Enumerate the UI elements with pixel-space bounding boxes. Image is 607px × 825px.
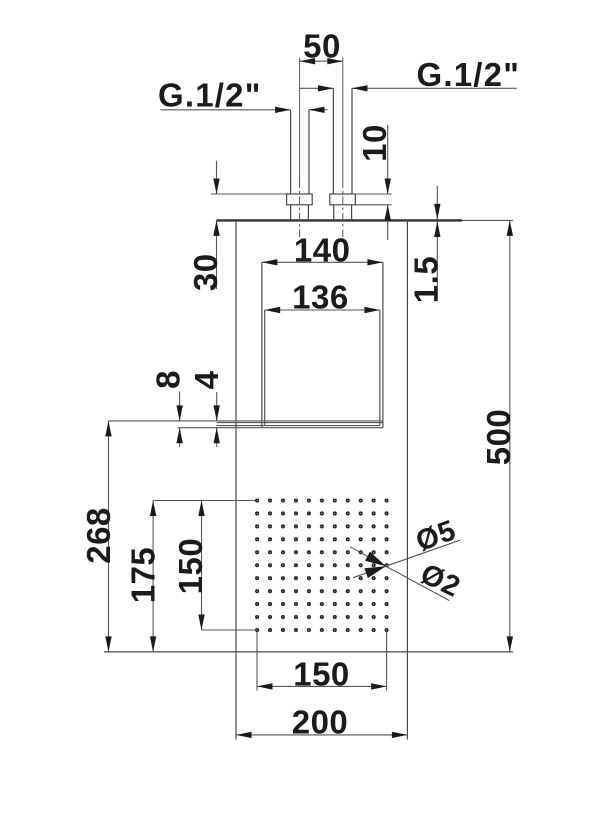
O5 leader line	[353, 540, 460, 578]
svg-text:1.5: 1.5	[407, 256, 444, 303]
panel right edge + 200 dim extension	[406, 220, 408, 739]
dim 140 left arrow	[262, 259, 278, 265]
dim 10 up arrow	[385, 205, 391, 221]
dim 50 line	[300, 60, 343, 62]
dim 150h left extension line	[256, 632, 258, 691]
left pipe flange	[287, 194, 313, 205]
dim 150v bottom extension line	[202, 629, 258, 631]
panel left edge + 200 dim extension	[235, 220, 237, 739]
ledge line 4	[178, 427, 383, 429]
svg-text:500: 500	[480, 409, 517, 466]
dim 150v line	[201, 501, 203, 631]
O2 leader line	[350, 547, 449, 601]
dim 200 right arrow	[392, 732, 408, 738]
dim 200 line	[236, 734, 407, 736]
right pipe right edge	[351, 88, 353, 194]
svg-text:150: 150	[293, 655, 350, 692]
right pipe stub left edge	[333, 205, 335, 220]
dim 136 line / window inner top edge	[265, 309, 380, 311]
window inner left edge	[264, 310, 266, 426]
dim 10 line upper	[387, 125, 389, 194]
dim 50 right arrow	[327, 58, 343, 64]
dim 500 up arrow	[507, 220, 513, 236]
left pipe right edge	[308, 110, 310, 194]
dim 4 down arrow	[214, 405, 220, 421]
svg-text:140: 140	[294, 232, 351, 269]
dim 10 down arrow	[385, 179, 391, 195]
right G.1/2 leader segment left of pipe	[300, 87, 334, 89]
right pipe stub right edge	[351, 205, 353, 220]
svg-text:50: 50	[303, 28, 341, 65]
dim 1.5 down arrow	[434, 204, 440, 220]
window outer left edge	[261, 262, 263, 427]
svg-text:150: 150	[172, 538, 209, 595]
dim 50 left arrow	[300, 58, 316, 64]
left pipe left edge	[290, 110, 292, 194]
dim 30 line lower	[216, 220, 218, 289]
left pipe stub right edge	[307, 205, 309, 220]
left G.1/2 arrow at pipe right edge	[309, 107, 325, 113]
dim 150h line	[257, 685, 387, 687]
svg-text:8: 8	[149, 370, 186, 389]
panel top plate edge (thick)	[217, 219, 463, 221]
left G.1/2 arrow at pipe left edge	[275, 107, 291, 113]
dim 8 down arrow	[176, 405, 182, 421]
dim 175 line	[152, 501, 154, 652]
dim 8 up arrow	[176, 428, 182, 444]
right G.1/2 arrow at pipe left edge	[318, 85, 334, 91]
svg-text:30: 30	[187, 253, 224, 291]
spray hole grid 11x11 (O5 holes with O2 centers)	[255, 498, 259, 502]
O2 leader arrow	[365, 552, 386, 567]
dim 30 extension line at flange top level	[211, 193, 287, 195]
panel bottom edge with 268/500 dim extensions	[104, 651, 513, 653]
ledge line 3	[217, 425, 380, 427]
dim 136 left arrow	[265, 307, 281, 313]
dim 175 up arrow	[150, 501, 156, 517]
left G.1/2 leader line	[160, 109, 290, 111]
dim 136 right arrow	[364, 307, 380, 313]
dim 500 line	[509, 220, 511, 652]
left pipe centerline	[299, 58, 301, 181]
ledge line 1	[109, 420, 383, 422]
dim 30 up arrow	[213, 220, 219, 236]
ledge line 2	[217, 422, 383, 424]
dim 150h right extension line	[386, 632, 388, 691]
svg-text:10: 10	[356, 124, 393, 162]
dim 30 down arrow	[213, 179, 219, 195]
dim 268 line	[108, 421, 110, 652]
svg-text:175: 175	[125, 547, 162, 604]
dim 8 line upper	[179, 392, 181, 421]
dim 10 extension line flange top	[355, 193, 391, 195]
dim 150h left arrow	[257, 683, 273, 689]
right G.1/2 arrow at pipe right edge	[352, 85, 368, 91]
right pipe centerline	[342, 58, 344, 181]
svg-text:136: 136	[292, 278, 349, 315]
dim 1.5 up arrow	[434, 222, 440, 238]
dim 10 extension line flange bottom	[355, 204, 391, 206]
dim 4 line upper	[216, 392, 218, 421]
dim 268 down arrow	[105, 636, 111, 652]
dim 150v up arrow	[198, 501, 204, 517]
O5 leader arrow	[364, 566, 386, 578]
right pipe left edge	[332, 88, 334, 194]
window inner right edge	[379, 310, 381, 426]
dim 200 left arrow	[236, 732, 252, 738]
dim 1.5 line lower	[436, 222, 438, 301]
right pipe flange	[330, 194, 356, 205]
dim 8 line lower	[179, 428, 181, 447]
right G.1/2 leader line	[352, 87, 517, 89]
dim 268 up arrow	[105, 421, 111, 437]
dim 150h right arrow	[371, 683, 387, 689]
svg-text:G.1/2": G.1/2"	[417, 56, 521, 93]
dim 4 line lower	[216, 428, 218, 447]
svg-text:G.1/2": G.1/2"	[158, 76, 262, 113]
dim 140 right arrow	[367, 259, 383, 265]
panel top extension line for 500 dim	[462, 219, 513, 221]
dim 150v down arrow	[198, 615, 204, 631]
svg-text:4: 4	[188, 370, 225, 389]
left G.1/2 leader segment right of pipe	[309, 109, 328, 111]
dim 1.5 line upper	[436, 186, 438, 219]
dim 4 up arrow	[214, 428, 220, 444]
svg-text:268: 268	[80, 507, 117, 564]
dim 140 line / window outer top edge	[262, 261, 383, 263]
dim 30 line upper	[216, 161, 218, 194]
window outer right edge	[382, 262, 384, 427]
dim 10 line lower	[387, 205, 389, 240]
dim 175 down arrow	[150, 636, 156, 652]
svg-text:200: 200	[292, 703, 349, 740]
left pipe stub left edge	[290, 205, 292, 220]
dim 175 top extension line	[153, 500, 257, 502]
dim 500 down arrow	[507, 636, 513, 652]
